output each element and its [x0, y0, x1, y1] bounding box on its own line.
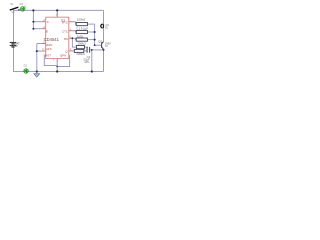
svg-text:220kΩ: 220kΩ [76, 52, 84, 56]
svg-text:AFS: AFS [46, 47, 52, 51]
svg-text:RS: RS [64, 37, 68, 41]
svg-text:U1: U1 [61, 19, 65, 23]
svg-text:A: A [47, 20, 49, 24]
svg-text:CD4541: CD4541 [44, 37, 60, 42]
svg-text:QPN: QPN [60, 54, 66, 58]
svg-text:200kΩ: 200kΩ [78, 42, 86, 46]
svg-text:RST: RST [45, 54, 51, 58]
svg-text:CTC: CTC [62, 30, 68, 34]
svg-text:C1 0.1µF: C1 0.1µF [76, 26, 88, 30]
svg-text:100kΩ: 100kΩ [77, 18, 85, 22]
svg-text:14: 14 [56, 15, 59, 17]
svg-text:Q1: Q1 [98, 39, 102, 43]
svg-text:D2: D2 [24, 64, 28, 68]
svg-text:sw: sw [12, 11, 15, 14]
svg-text:10V: 10V [84, 60, 89, 64]
svg-text:1: 1 [69, 20, 71, 22]
svg-text:04: 04 [105, 46, 108, 48]
svg-text:7: 7 [53, 60, 55, 62]
svg-text:1MΩ: 1MΩ [77, 34, 83, 38]
svg-text:S1: S1 [10, 2, 14, 6]
svg-text:9V: 9V [15, 45, 18, 48]
svg-text:D1: D1 [20, 2, 24, 6]
svg-text:B: B [46, 29, 48, 33]
